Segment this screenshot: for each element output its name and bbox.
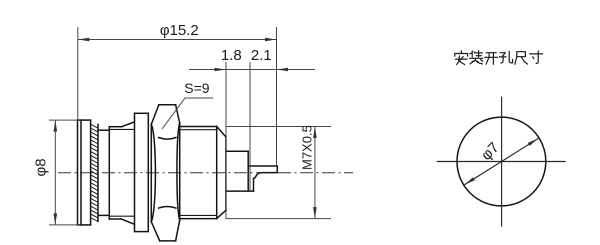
svg-text:φ15.2: φ15.2 [160,22,199,39]
svg-text:M7X0.5: M7X0.5 [299,125,314,170]
svg-text:φ8: φ8 [33,158,50,176]
svg-text:S=9: S=9 [184,80,210,96]
svg-text:1.8: 1.8 [221,47,242,64]
svg-text:2.1: 2.1 [251,47,272,64]
